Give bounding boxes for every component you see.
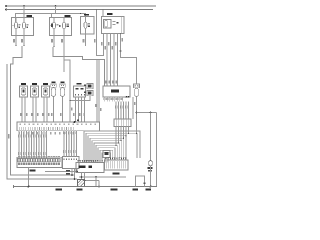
- sender unit 1: [52, 82, 56, 84]
- stacked sensor wire: [70, 96, 90, 101]
- unit 3 wires: [43, 97, 45, 122]
- wire fuse5a: [85, 20, 87, 22]
- wire fuse2b: [23, 29, 25, 46]
- junction connector block D: [63, 157, 80, 169]
- junction connector row enclosure: [17, 157, 62, 167]
- wire fuse4b: [63, 29, 65, 73]
- ECM harness wires: [115, 102, 117, 120]
- enclosure edge label: [8, 134, 10, 139]
- power bus line 1: [5, 5, 7, 7]
- enclosure outline outer: [7, 64, 77, 179]
- ground loop right: [136, 176, 145, 187]
- relay block H1: [12, 18, 34, 36]
- relay block H2: [50, 18, 72, 36]
- box A input arrows: [77, 160, 79, 162]
- indicator lamp unit 3: [43, 83, 48, 85]
- ground bus: [14, 186, 157, 188]
- relay block H3: [81, 17, 95, 35]
- ground labels: [56, 188, 63, 190]
- sender unit 2 wire: [62, 96, 64, 122]
- wire fuse2a: [23, 5, 25, 7]
- fuse F3: [53, 22, 56, 28]
- junction connector row: [18, 159, 20, 162]
- box A lower wires: [81, 173, 83, 180]
- horizontal link y180.5: [85, 180, 100, 182]
- sender unit 1 wire: [53, 96, 55, 122]
- unit 1 wires: [21, 97, 23, 122]
- strip lower labels: [18, 132, 20, 134]
- box B label: [113, 172, 120, 174]
- label H3: [84, 14, 89, 16]
- strip pin ticks: [18, 127, 20, 130]
- connector capsule right: [134, 84, 140, 88]
- horizontal link y177: [79, 176, 126, 178]
- wire with U loop: [96, 9, 98, 11]
- enclosure outline inner: [11, 46, 75, 175]
- cluster wires to lower connector row: [18, 131, 20, 159]
- strip top text band: [20, 123, 22, 125]
- bus line 3: [16, 14, 86, 23]
- fuse F4: [63, 22, 66, 28]
- indicator lamp unit 1: [21, 83, 26, 85]
- fuse F1: [15, 22, 18, 28]
- box E wires into loops: [115, 127, 117, 146]
- feed wire J/B: [102, 9, 104, 11]
- long harness wire: [64, 36, 70, 123]
- resistor branch: [150, 112, 152, 114]
- ECM box: [103, 86, 130, 97]
- label J/B: [107, 13, 113, 15]
- indicator lamp unit 2: [32, 83, 37, 85]
- ground wire riser: [28, 168, 30, 187]
- power bus line 2: [5, 8, 7, 10]
- ECM bottom pin row: [104, 98, 106, 100]
- capsule wire: [136, 96, 138, 133]
- fuse F2: [23, 22, 26, 28]
- label H2: [65, 15, 71, 17]
- connector strip box: [17, 122, 100, 131]
- harness loop wires: [84, 131, 140, 163]
- box D lower wires: [71, 169, 73, 176]
- enclosure top middle boundary: [53, 47, 105, 86]
- wire fuse3a: [53, 18, 55, 23]
- wire fuse1b: [15, 29, 17, 46]
- boundary drop wires: [96, 60, 98, 123]
- fuse F5: [84, 22, 87, 28]
- speed sensor wires: [75, 97, 77, 122]
- ECM top labels: [105, 81, 107, 84]
- wire fuse5b: [85, 28, 87, 46]
- fuse row inside J/B: [104, 20, 112, 29]
- J/B pin wires: [103, 34, 105, 56]
- stacked gauge sensor: [87, 84, 93, 89]
- row label: [30, 170, 36, 172]
- harness connector box B: [105, 160, 129, 170]
- capsule wire joins loop: [136, 133, 137, 134]
- wire fuse3b: [53, 29, 55, 47]
- speed sensor box: [77, 83, 82, 85]
- junction block J/B: [102, 17, 125, 34]
- meter circuit plate box A: [76, 163, 104, 173]
- wire fuse4a: [55, 5, 57, 7]
- wire fuse1a: [15, 18, 17, 23]
- ECM harness connector E: [114, 119, 131, 127]
- resistor: [149, 161, 152, 167]
- noise filter F: [103, 151, 110, 158]
- label H1: [27, 15, 33, 17]
- shield ground block: [78, 180, 85, 187]
- wire W: [132, 97, 134, 119]
- wire to right edge: [137, 112, 157, 114]
- sender unit 2: [61, 82, 65, 84]
- unit 2 wires: [32, 97, 34, 122]
- wire to right connector: [120, 33, 122, 35]
